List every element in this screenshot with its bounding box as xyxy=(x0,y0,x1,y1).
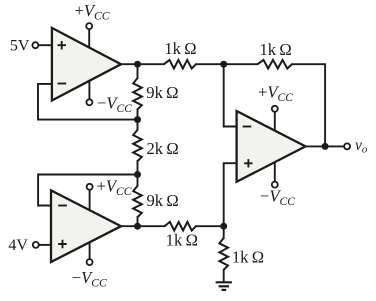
svg-text:2k Ω: 2k Ω xyxy=(146,139,178,158)
svg-text:9k Ω: 9k Ω xyxy=(146,83,178,102)
svg-text:5V: 5V xyxy=(10,37,30,54)
svg-text:4V: 4V xyxy=(8,237,28,254)
svg-text:1k Ω: 1k Ω xyxy=(259,40,291,59)
svg-text:1k Ω: 1k Ω xyxy=(166,231,198,250)
svg-text:1k Ω: 1k Ω xyxy=(232,248,264,267)
svg-text:1k Ω: 1k Ω xyxy=(164,39,196,58)
svg-text:9k Ω: 9k Ω xyxy=(146,191,178,210)
